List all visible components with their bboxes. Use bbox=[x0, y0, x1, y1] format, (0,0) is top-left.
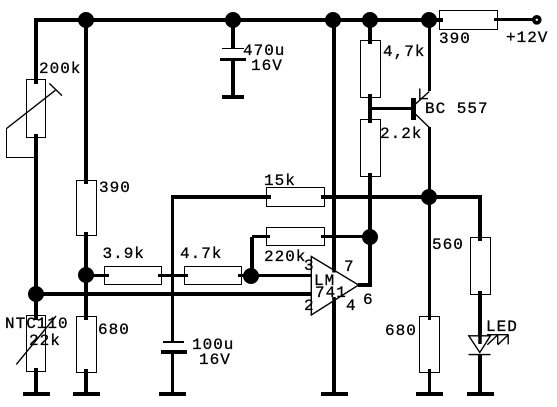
ground under LED bbox=[467, 392, 494, 396]
wire 680 right to ground bbox=[428, 369, 432, 393]
wire 15k left lead bbox=[171, 195, 272, 199]
junction node op-amp pin 3 bbox=[243, 268, 259, 284]
label 200k bbox=[39, 61, 81, 77]
label 3.9k bbox=[103, 246, 145, 262]
junction node 390/3.9k/680 bbox=[78, 267, 94, 283]
junction node NTC/pin2 bbox=[28, 286, 44, 302]
wire LED to ground bbox=[478, 355, 482, 393]
LED D1 cathode bar bbox=[469, 354, 491, 356]
junction node output/220k bbox=[362, 229, 378, 245]
thermistor NTC110 body bbox=[26, 315, 46, 372]
wire emitter vertical bbox=[428, 18, 432, 91]
label 390 left bbox=[99, 180, 131, 196]
wire potentiometer wiper return vertical bbox=[6, 128, 7, 158]
label pin 7 bbox=[344, 259, 355, 275]
wire capacitor C2 to ground bbox=[171, 354, 175, 393]
LED D1 light arrows bbox=[487, 335, 509, 345]
wire branch x86 upper bbox=[84, 18, 88, 184]
label 390 top right bbox=[439, 31, 471, 47]
resistor 2.2k body bbox=[360, 119, 381, 177]
ground under op-amp pin 4 bbox=[321, 392, 348, 396]
wire collector vertical bbox=[428, 127, 432, 320]
wire branch x86 middle bbox=[84, 232, 88, 320]
resistor 680 left body bbox=[76, 316, 97, 374]
resistor 560 body bbox=[470, 237, 491, 295]
label 470u bbox=[243, 43, 285, 59]
label 100u bbox=[192, 337, 234, 353]
wire capacitor C1 lower lead bbox=[231, 60, 235, 96]
wire 220k right lead bbox=[321, 235, 371, 239]
capacitor C1 470u plate thick bbox=[220, 58, 247, 62]
wire left vertical middle bbox=[34, 134, 38, 321]
resistor 4.7k top body bbox=[360, 40, 381, 98]
wire capacitor C1 upper lead bbox=[231, 18, 235, 49]
label LED bbox=[486, 319, 518, 335]
wire 15k right lead to collector node bbox=[321, 195, 483, 199]
capacitor C1 470u plate thin bbox=[222, 48, 244, 49]
wire left vertical upper bbox=[34, 18, 38, 84]
label LM bbox=[314, 273, 335, 289]
wire left vertical lower bbox=[34, 368, 38, 393]
wire 560 to LED bbox=[478, 291, 482, 337]
capacitor C2 100u plate thick bbox=[161, 350, 188, 354]
wire op-amp pin 4 to ground bbox=[332, 299, 336, 393]
junction node collector/15k/680 bbox=[421, 189, 437, 205]
wire top supply rail bbox=[34, 18, 443, 22]
label 560 bbox=[432, 237, 464, 253]
ground under NTC bbox=[23, 392, 50, 396]
label 680 right bbox=[385, 323, 417, 339]
junction node rail x334 bbox=[325, 12, 341, 28]
resistor 3.9k body bbox=[104, 266, 162, 286]
LED D1 triangle bbox=[469, 336, 491, 353]
wire op-amp pin 7 supply bbox=[332, 18, 336, 270]
node +12V terminal bbox=[528, 11, 546, 29]
wire 220k left lead bbox=[252, 235, 270, 239]
label 16V bottom bbox=[199, 352, 231, 368]
label 220k bbox=[264, 249, 306, 265]
potentiometer R1 200k body bbox=[26, 79, 46, 138]
transistor Q1 base bar bbox=[411, 98, 416, 121]
wire branch x370 upper bbox=[368, 18, 372, 44]
wire branch x86 lower bbox=[84, 369, 88, 393]
resistor 390 left body bbox=[76, 180, 97, 237]
resistor 390 top right body bbox=[439, 10, 498, 31]
ground under 100u bbox=[159, 392, 186, 396]
wire between 4.7k and 2.2k bbox=[368, 94, 372, 123]
label 680 left bbox=[98, 322, 130, 338]
transistor Q1 emitter bbox=[414, 89, 430, 106]
label 2.2k bbox=[380, 126, 422, 142]
junction node rail x86 bbox=[78, 12, 94, 28]
potentiometer wiper arrow bbox=[7, 83, 63, 128]
junction node rail x233 bbox=[225, 12, 241, 28]
wire potentiometer wiper return horizontal bbox=[6, 157, 36, 158]
resistor 15k body bbox=[266, 187, 325, 207]
label 22k bbox=[29, 333, 61, 349]
wire +12V lead bbox=[494, 18, 533, 21]
wire transistor base lead bbox=[370, 107, 412, 111]
ground under 470u bbox=[222, 95, 244, 99]
wire op-amp pin 2 input bbox=[34, 292, 314, 296]
wire node to 3.9k bbox=[86, 274, 109, 278]
junction node rail x370 bbox=[362, 12, 378, 28]
label pin 4 bbox=[346, 298, 357, 314]
label BC 557 bbox=[425, 101, 489, 117]
junction node rail x429 bbox=[421, 12, 437, 28]
label 15k bbox=[264, 173, 296, 189]
resistor 220k body bbox=[266, 227, 325, 247]
label pin 6 bbox=[363, 292, 374, 308]
wire op-amp output lead bbox=[358, 283, 372, 287]
label 4,7k bbox=[383, 44, 425, 60]
label NTC110 bbox=[5, 316, 69, 332]
label 16V top bbox=[251, 58, 283, 74]
resistor 4.7k middle body bbox=[184, 266, 242, 286]
ground under 680 left bbox=[73, 392, 100, 396]
ground under 680 right bbox=[416, 392, 443, 396]
resistor 680 right body bbox=[419, 316, 440, 373]
op-amp U1 triangle bbox=[311, 257, 358, 316]
label 4.7k middle bbox=[180, 246, 222, 262]
thermistor NTC slash bbox=[16, 316, 56, 364]
wire 2.2k to output node bbox=[368, 173, 372, 286]
capacitor C2 100u plate thin bbox=[163, 341, 184, 342]
label pin 2 bbox=[304, 298, 315, 314]
transistor Q1 collector bbox=[414, 112, 430, 127]
wire 220k left corner vertical bbox=[250, 237, 254, 276]
label +12V bbox=[506, 30, 548, 46]
wire feedback vertical x172 bbox=[171, 197, 175, 342]
wire 3.9k to 4.7k bbox=[158, 274, 188, 278]
label pin 3 bbox=[304, 258, 315, 274]
wire 560 branch upper bbox=[478, 197, 482, 241]
wire 4.7k to op-amp pin 3 bbox=[238, 274, 315, 278]
label 741 bbox=[315, 285, 347, 301]
